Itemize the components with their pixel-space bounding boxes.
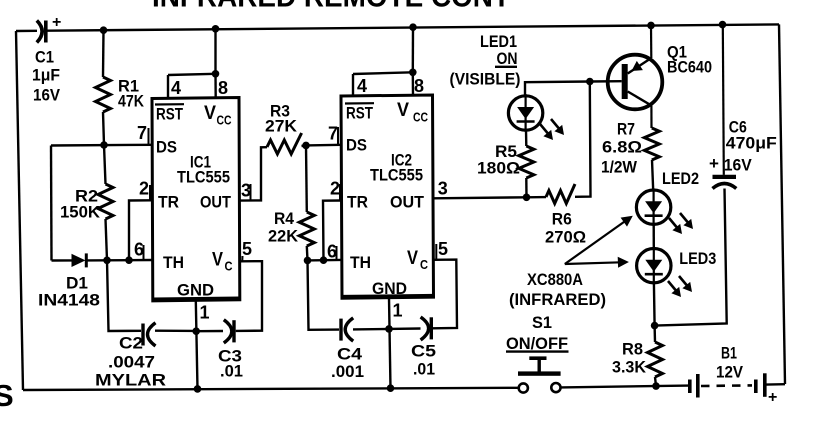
label C3 bbox=[218, 347, 242, 366]
svg-text:180Ω: 180Ω bbox=[477, 159, 520, 178]
wire top rail C1 to right corner bbox=[47, 24, 780, 30]
svg-text:S1: S1 bbox=[532, 313, 552, 332]
svg-text:22K: 22K bbox=[268, 227, 299, 246]
resistor R8 bbox=[648, 342, 663, 377]
wire bottom rail left bbox=[23, 388, 518, 390]
label R3 bbox=[270, 102, 290, 121]
pin 5 IC1 bbox=[242, 239, 252, 261]
svg-text:R4: R4 bbox=[274, 209, 294, 228]
label IC2 GND bbox=[372, 279, 407, 298]
svg-text:.01: .01 bbox=[413, 360, 435, 379]
svg-text:S: S bbox=[0, 378, 14, 413]
wire IC2 pin1 stem bbox=[389, 298, 391, 388]
label D1 value IN4148 bbox=[38, 291, 100, 310]
svg-text:RST: RST bbox=[156, 105, 183, 124]
wire LED3 to node bbox=[653, 283, 656, 326]
svg-text:TR: TR bbox=[347, 193, 368, 212]
svg-text:C: C bbox=[420, 257, 429, 272]
svg-text:1: 1 bbox=[200, 303, 210, 323]
wire pin1 node to C3 bbox=[196, 330, 223, 333]
label C1 value 1uF bbox=[32, 66, 60, 85]
label IC2 DS bbox=[346, 136, 367, 155]
wire right side vertical bbox=[779, 24, 785, 384]
svg-text:GND: GND bbox=[372, 279, 407, 298]
svg-text:(VISIBLE): (VISIBLE) bbox=[450, 70, 521, 89]
label IC2 type TLC555 bbox=[370, 166, 423, 185]
svg-text:.0047: .0047 bbox=[108, 353, 155, 372]
svg-text:R7: R7 bbox=[617, 120, 635, 139]
node TH2 junction at TR wire bbox=[320, 256, 328, 264]
svg-text:C1: C1 bbox=[35, 48, 54, 67]
wire IC1 pin8 stub bbox=[214, 74, 217, 98]
svg-text:ON/OFF: ON/OFF bbox=[506, 334, 568, 353]
label IC1 TH bbox=[163, 253, 184, 272]
wire TH1 to IC1 bbox=[107, 259, 152, 262]
svg-text:TH: TH bbox=[163, 253, 184, 272]
wire C4 to pin1 node bbox=[353, 328, 389, 331]
node IC1 link riser bbox=[212, 70, 220, 78]
label R2 value 150K bbox=[60, 203, 101, 222]
svg-text:12V: 12V bbox=[716, 363, 744, 382]
label C2 bbox=[119, 334, 143, 353]
label IC1 type TLC555 bbox=[177, 168, 230, 187]
label R7 value 1/2W bbox=[601, 158, 638, 177]
label C6 plus bbox=[709, 154, 719, 173]
label IC2 TR bbox=[347, 193, 368, 212]
switch S1 pushbutton bbox=[518, 356, 561, 392]
op-amp timer IC1 TLC555 box bbox=[152, 98, 240, 301]
pin 7 IC2 bbox=[328, 124, 338, 145]
wire TR1 bend bbox=[129, 200, 152, 260]
label C3 value .01 bbox=[220, 362, 243, 381]
label C6 value 16V bbox=[724, 156, 753, 175]
svg-text:3.3K: 3.3K bbox=[612, 358, 647, 377]
svg-text:7: 7 bbox=[137, 123, 147, 143]
svg-text:7: 7 bbox=[328, 124, 338, 144]
wire C5 to VC2 loop bbox=[433, 260, 457, 329]
svg-text:LED3: LED3 bbox=[679, 249, 716, 268]
node C4 C5 pin1 junction bbox=[385, 325, 393, 333]
label IC2 VC bbox=[407, 248, 429, 272]
node OUT2 R5 R6 junction bbox=[523, 194, 531, 202]
wire R5 bottom lead bbox=[525, 178, 528, 197]
wire IC1 pin4-8 link bbox=[168, 74, 216, 75]
wire R3 to node bbox=[302, 144, 307, 147]
node base junction bbox=[586, 78, 594, 86]
svg-text:2: 2 bbox=[139, 179, 149, 199]
capacitor C5 bbox=[421, 317, 432, 340]
LED LED1 bbox=[508, 94, 542, 132]
wire DS1 horizontal bbox=[51, 144, 152, 147]
svg-text:CC: CC bbox=[413, 110, 428, 125]
label LED2 bbox=[662, 169, 699, 188]
svg-text:150K: 150K bbox=[60, 203, 101, 222]
svg-text:5: 5 bbox=[438, 239, 448, 259]
node top rail IC1 riser bbox=[212, 25, 220, 33]
svg-text:R8: R8 bbox=[622, 340, 643, 359]
svg-text:27K: 27K bbox=[265, 117, 298, 136]
wire R1 top lead bbox=[102, 30, 105, 77]
svg-text:MYLAR: MYLAR bbox=[95, 371, 166, 390]
label R5 value 180 bbox=[477, 159, 520, 178]
label B1 value 12V bbox=[716, 363, 744, 382]
svg-text:ON: ON bbox=[497, 49, 518, 68]
wire R7 to LED2 bbox=[652, 160, 653, 191]
svg-text:47K: 47K bbox=[118, 92, 145, 111]
label R4 value 22K bbox=[268, 227, 299, 246]
pin 3 IC2 bbox=[438, 179, 448, 199]
wire IC1 pin4 stub bbox=[167, 75, 169, 98]
resistor R6 bbox=[546, 184, 575, 204]
svg-text:V: V bbox=[204, 103, 216, 124]
svg-text:V: V bbox=[212, 250, 223, 271]
label XC880A bbox=[527, 270, 583, 289]
svg-text:1μF: 1μF bbox=[32, 66, 60, 85]
svg-text:470μF: 470μF bbox=[726, 134, 777, 153]
wire R6 left lead bbox=[527, 196, 547, 199]
svg-text:270Ω: 270Ω bbox=[545, 228, 586, 247]
label R1 value 47K bbox=[118, 92, 145, 111]
label R4 bbox=[274, 209, 294, 228]
wire R4 top lead bbox=[305, 145, 308, 212]
svg-text:4: 4 bbox=[171, 78, 181, 98]
label IC2 TH bbox=[350, 253, 371, 272]
op-amp timer IC2 TLC555 box bbox=[341, 95, 434, 298]
label IC2 VCC bbox=[397, 100, 428, 125]
pin 4 IC1 bbox=[171, 78, 181, 98]
light arrows LED2 bbox=[669, 213, 693, 234]
light arrows LED3 bbox=[668, 276, 692, 297]
node top rail IC2 riser bbox=[409, 23, 417, 31]
resistor R7 bbox=[644, 128, 659, 160]
label B1 bbox=[721, 344, 737, 363]
node IC2 link riser bbox=[409, 69, 417, 77]
label IC1 OUT bbox=[200, 193, 232, 212]
svg-text:5: 5 bbox=[242, 239, 252, 259]
svg-text:B1: B1 bbox=[721, 344, 737, 363]
label S1 ON/OFF bbox=[506, 334, 569, 353]
node top rail Q1 emitter bbox=[647, 22, 655, 30]
wire TH2 down to C4 bbox=[308, 260, 340, 329]
label C4 value .001 bbox=[331, 362, 364, 381]
wire LED1 top bend bbox=[525, 82, 590, 97]
label IC1 TR bbox=[158, 193, 179, 212]
svg-text:IN4148: IN4148 bbox=[38, 291, 100, 310]
label INFRARED bbox=[509, 290, 606, 309]
label R1 bbox=[118, 77, 139, 96]
wire pin1 node to C5 bbox=[389, 327, 421, 330]
resistor R1 bbox=[96, 77, 111, 112]
node TH2 junction at R4 bbox=[304, 257, 312, 265]
svg-text:2: 2 bbox=[330, 179, 340, 199]
svg-text:GND: GND bbox=[177, 281, 214, 300]
label R8 value 3.3K bbox=[612, 358, 647, 377]
wire R8 bottom lead bbox=[655, 377, 656, 386]
wire bottom rail switch to battery bbox=[561, 386, 689, 388]
pin 6 IC2 bbox=[327, 242, 337, 262]
label R7 bbox=[617, 120, 635, 139]
pointer arrows XC880A bbox=[565, 216, 633, 268]
node top rail C6 bbox=[719, 21, 727, 29]
svg-text:(INFRARED): (INFRARED) bbox=[509, 290, 606, 309]
svg-text:XC880A: XC880A bbox=[527, 270, 583, 289]
label IC1 RST overline bbox=[155, 103, 184, 106]
label IC2 OUT bbox=[390, 193, 425, 212]
pin 2 IC2 bbox=[330, 179, 340, 201]
caption letter S (clipped) bbox=[0, 378, 14, 413]
label R3 value 27K bbox=[265, 117, 298, 136]
svg-text:6.8Ω: 6.8Ω bbox=[602, 138, 642, 157]
wire R2 top lead bbox=[104, 145, 106, 184]
svg-text:8: 8 bbox=[218, 78, 228, 98]
label LED3 bbox=[679, 249, 716, 268]
wire LED1 to R5 bbox=[525, 130, 528, 146]
capacitor C6 bbox=[713, 25, 737, 189]
wire R4 bottom lead bbox=[306, 246, 309, 260]
node LED3 R8 C6 junction bbox=[651, 322, 659, 330]
pin 1 IC1 bbox=[200, 303, 210, 323]
label IC1 RST bbox=[156, 105, 183, 124]
label IC1 VC bbox=[212, 250, 233, 274]
wire R8 top lead bbox=[653, 326, 656, 342]
svg-text:8: 8 bbox=[414, 76, 424, 96]
pin 4 IC2 bbox=[357, 76, 367, 96]
svg-text:OUT: OUT bbox=[200, 193, 232, 212]
svg-text:.01: .01 bbox=[220, 362, 243, 381]
label LED1 bbox=[480, 32, 517, 51]
label R6 bbox=[552, 210, 572, 229]
wire R6 to base riser bbox=[575, 82, 591, 197]
label IC1 DS bbox=[156, 138, 177, 157]
svg-text:TLC555: TLC555 bbox=[177, 168, 230, 187]
label R8 bbox=[622, 340, 643, 359]
wire IC2 pin8 stub bbox=[412, 72, 415, 95]
battery B1 bbox=[688, 373, 777, 406]
svg-text:BC640: BC640 bbox=[667, 58, 712, 77]
svg-text:CC: CC bbox=[217, 113, 232, 128]
wire top rail left to C1 bbox=[16, 30, 37, 33]
diode D1 bbox=[52, 253, 108, 267]
svg-text:1: 1 bbox=[393, 301, 403, 321]
svg-text:3: 3 bbox=[438, 179, 448, 199]
wire R1 bottom lead bbox=[103, 112, 104, 145]
node TH1 junction at TR wire bbox=[125, 256, 133, 264]
label R5 bbox=[495, 142, 517, 161]
node R3 DS2 R4 junction bbox=[302, 142, 310, 150]
label LED1 VISIBLE bbox=[450, 70, 521, 89]
label C2 value MYLAR bbox=[95, 371, 166, 390]
capacitor C3 bbox=[224, 320, 234, 343]
label IC2 RST bbox=[346, 104, 373, 123]
label C5 bbox=[411, 342, 436, 361]
wire OUT1 to R3 bbox=[240, 147, 267, 200]
pin 1 IC2 bbox=[393, 301, 403, 321]
svg-text:C4: C4 bbox=[337, 345, 363, 364]
wire LED2 to LED3 bbox=[653, 224, 655, 249]
wire OUT2 to R5 node bbox=[434, 197, 527, 198]
node bottom rail R8 bbox=[652, 382, 660, 390]
svg-text:V: V bbox=[397, 100, 409, 121]
svg-text:4: 4 bbox=[357, 76, 367, 96]
svg-text:C2: C2 bbox=[119, 334, 143, 353]
label S1 bbox=[532, 313, 552, 332]
node TH1 junction at R2 bbox=[103, 257, 111, 265]
wire TH1 down to C2 bbox=[107, 260, 141, 331]
svg-text:DS: DS bbox=[156, 138, 177, 157]
wire TH2 to IC2 bbox=[308, 259, 342, 262]
svg-text:16V: 16V bbox=[33, 86, 61, 105]
node DS pin7 IC1 junction bbox=[100, 141, 108, 149]
label Q1 bbox=[667, 43, 687, 62]
svg-text:DS: DS bbox=[346, 136, 367, 155]
label Q1 type BC640 bbox=[667, 58, 712, 77]
svg-text:R6: R6 bbox=[552, 210, 572, 229]
label C1 bbox=[35, 48, 54, 67]
pin 5 IC2 bbox=[436, 239, 448, 260]
wire R2 bottom lead bbox=[106, 219, 108, 260]
svg-text:+: + bbox=[52, 14, 61, 31]
wire IC2 riser to rail bbox=[412, 27, 415, 72]
wire C2 to pin1 node bbox=[155, 330, 196, 333]
label IC2 name bbox=[391, 151, 412, 170]
svg-text:16V: 16V bbox=[724, 156, 753, 175]
LED LED2 bbox=[636, 188, 670, 226]
label R2 bbox=[75, 187, 98, 206]
label C6 value 470uF bbox=[726, 134, 777, 153]
wire bottom rail battery to corner bbox=[767, 383, 786, 386]
svg-text:+: + bbox=[768, 389, 777, 406]
wire IC1 riser to rail bbox=[214, 29, 216, 74]
label IC1 GND bbox=[177, 281, 214, 300]
wire left side vertical bbox=[16, 31, 23, 390]
label IC1 VCC bbox=[204, 103, 232, 128]
node C2 C3 pin1 junction bbox=[192, 327, 200, 335]
svg-text:OUT: OUT bbox=[390, 193, 425, 212]
wire node to C6 bottom bbox=[655, 189, 727, 326]
svg-text:INFRARED REMOTE CONT: INFRARED REMOTE CONT bbox=[152, 0, 510, 14]
capacitor C2 bbox=[143, 323, 156, 346]
label IC1 name bbox=[190, 153, 211, 172]
pin 2 IC1 bbox=[139, 179, 150, 201]
label R7 value 6.8 bbox=[602, 138, 642, 157]
pin 8 IC1 bbox=[218, 78, 228, 98]
svg-text:TLC555: TLC555 bbox=[370, 166, 423, 185]
transistor Q1 bbox=[590, 25, 663, 128]
pin 7 IC1 bbox=[137, 123, 149, 145]
label IC2 RST overline bbox=[345, 102, 374, 105]
label C6 bbox=[729, 118, 747, 137]
resistor R3 bbox=[267, 133, 302, 154]
light arrows LED1 bbox=[540, 119, 564, 140]
label D1 bbox=[66, 274, 88, 293]
svg-text:LED2: LED2 bbox=[662, 169, 699, 188]
capacitor C1 bbox=[37, 14, 62, 43]
wire left branch vertical bbox=[50, 146, 53, 261]
svg-text:C: C bbox=[225, 259, 234, 274]
pin 3 IC1 bbox=[241, 181, 251, 201]
node bottom rail IC2 stem bbox=[387, 384, 395, 392]
label R6 value 270 bbox=[545, 228, 586, 247]
wire IC1 pin1 stem bbox=[196, 301, 198, 389]
wire C3 to VC1 loop bbox=[236, 261, 262, 331]
LED LED3 bbox=[637, 247, 671, 285]
svg-text:V: V bbox=[407, 248, 418, 269]
resistor R2 bbox=[98, 184, 113, 219]
svg-text:.001: .001 bbox=[331, 362, 364, 381]
label C2 value .0047 bbox=[108, 353, 155, 372]
svg-text:1/2W: 1/2W bbox=[601, 158, 638, 177]
svg-text:TR: TR bbox=[158, 193, 179, 212]
pin 6 IC1 bbox=[134, 240, 144, 261]
resistor R5 bbox=[519, 146, 534, 178]
node top rail / R1 bbox=[100, 26, 108, 34]
svg-text:RST: RST bbox=[346, 104, 373, 123]
node bottom rail IC1 stem bbox=[194, 385, 202, 393]
label LED1 ON bbox=[495, 49, 518, 68]
svg-text:C5: C5 bbox=[411, 342, 436, 361]
label C1 value 16V bbox=[33, 86, 61, 105]
title (clipped) INFRARED REMOTE bbox=[152, 0, 510, 14]
pin 8 IC2 bbox=[414, 76, 424, 96]
svg-text:TH: TH bbox=[350, 253, 371, 272]
label C4 bbox=[337, 345, 363, 364]
wire IC2 pin4-8 link bbox=[353, 72, 413, 74]
wire IC2 pin4 stub bbox=[352, 74, 354, 96]
wire TR2 bend bbox=[323, 201, 341, 261]
resistor R4 bbox=[299, 212, 314, 246]
wire node to DS2 bbox=[306, 144, 341, 147]
capacitor C4 bbox=[341, 318, 353, 341]
label C5 value .01 bbox=[413, 360, 435, 379]
svg-text:+: + bbox=[709, 154, 719, 173]
